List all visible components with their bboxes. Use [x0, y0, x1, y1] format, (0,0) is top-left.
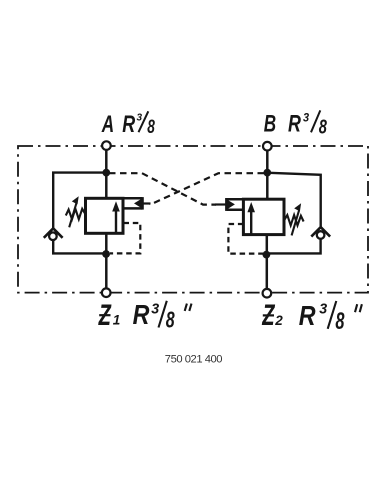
valve V1 pilot stem: [144, 202, 151, 204]
pilot line X2 dashed (junction B to valve V1 pilot): [149, 173, 264, 203]
enclosure border (dash-dot): [18, 146, 368, 293]
valve V1 flow arrow: [112, 201, 120, 232]
wire bypass right (top junction to check valve): [266, 173, 321, 229]
svg-text:8: 8: [147, 116, 155, 138]
port Z1: [102, 288, 111, 297]
wire V1 bottom to port Z1: [105, 233, 108, 292]
check valve CV2 ball: [317, 231, 325, 239]
wire bypass left (top junction to check valve): [53, 173, 107, 230]
svg-text:750 021 400: 750 021 400: [165, 353, 222, 365]
port Z2: [263, 289, 272, 298]
label Z1 R3/8 inch: [98, 299, 192, 333]
label Z2 R3/8 inch: [261, 299, 361, 334]
port B: [263, 142, 272, 151]
junction dot Z1: [102, 250, 110, 258]
valve V2 spring adjust arrow: [292, 203, 302, 235]
svg-text:R: R: [299, 301, 316, 331]
wire A port to valve V1: [105, 146, 108, 199]
svg-text:2: 2: [274, 313, 283, 328]
valve V2 pilot arrow: [227, 200, 235, 209]
check valve CV2 seat: [311, 227, 330, 237]
svg-text:8: 8: [166, 308, 176, 334]
valve V2 envelope: [243, 199, 284, 234]
svg-text:3: 3: [319, 301, 327, 317]
valve V1 spring adjust arrow: [69, 196, 79, 227]
svg-text:1: 1: [113, 313, 121, 328]
wire bypass right (check valve to bottom junction): [266, 238, 321, 253]
junction dot Z2: [263, 251, 271, 259]
svg-text:A: A: [101, 111, 114, 138]
svg-text:8: 8: [319, 115, 327, 138]
svg-text:3: 3: [151, 301, 159, 317]
junction dot A: [102, 169, 110, 177]
check valve CV1 ball: [49, 232, 57, 240]
drain line V1 dashed: [110, 223, 140, 253]
valve V2 pilot stem: [215, 203, 226, 205]
svg-text:3: 3: [137, 112, 143, 123]
valve V1 spring: [66, 209, 86, 219]
svg-text:R: R: [133, 300, 150, 330]
valve V2 flow arrow: [247, 202, 255, 234]
svg-text:R: R: [288, 110, 301, 137]
svg-text:3: 3: [303, 112, 310, 124]
valve V1 envelope: [86, 198, 124, 233]
valve V1 pilot bracket: [123, 197, 142, 210]
wire B port to valve V2: [266, 146, 269, 200]
drain line V2 dashed: [228, 224, 263, 254]
valve V2 spring: [284, 215, 304, 225]
pilot line X1 dashed (junction A to valve V2 pilot): [109, 173, 216, 204]
check valve CV1 seat: [44, 228, 63, 238]
svg-text:R: R: [122, 110, 135, 137]
label B R3/8: [264, 110, 327, 138]
label A R3/8: [101, 110, 155, 137]
valve V1 pilot arrow: [134, 199, 142, 208]
svg-text:8: 8: [335, 308, 345, 335]
port A: [102, 141, 111, 150]
wire V2 bottom to port Z2: [266, 235, 269, 294]
valve V2 pilot bracket: [227, 198, 244, 211]
wire bypass left (check valve to bottom junction): [53, 240, 107, 254]
junction dot B: [263, 169, 271, 177]
svg-text:B: B: [264, 111, 276, 138]
